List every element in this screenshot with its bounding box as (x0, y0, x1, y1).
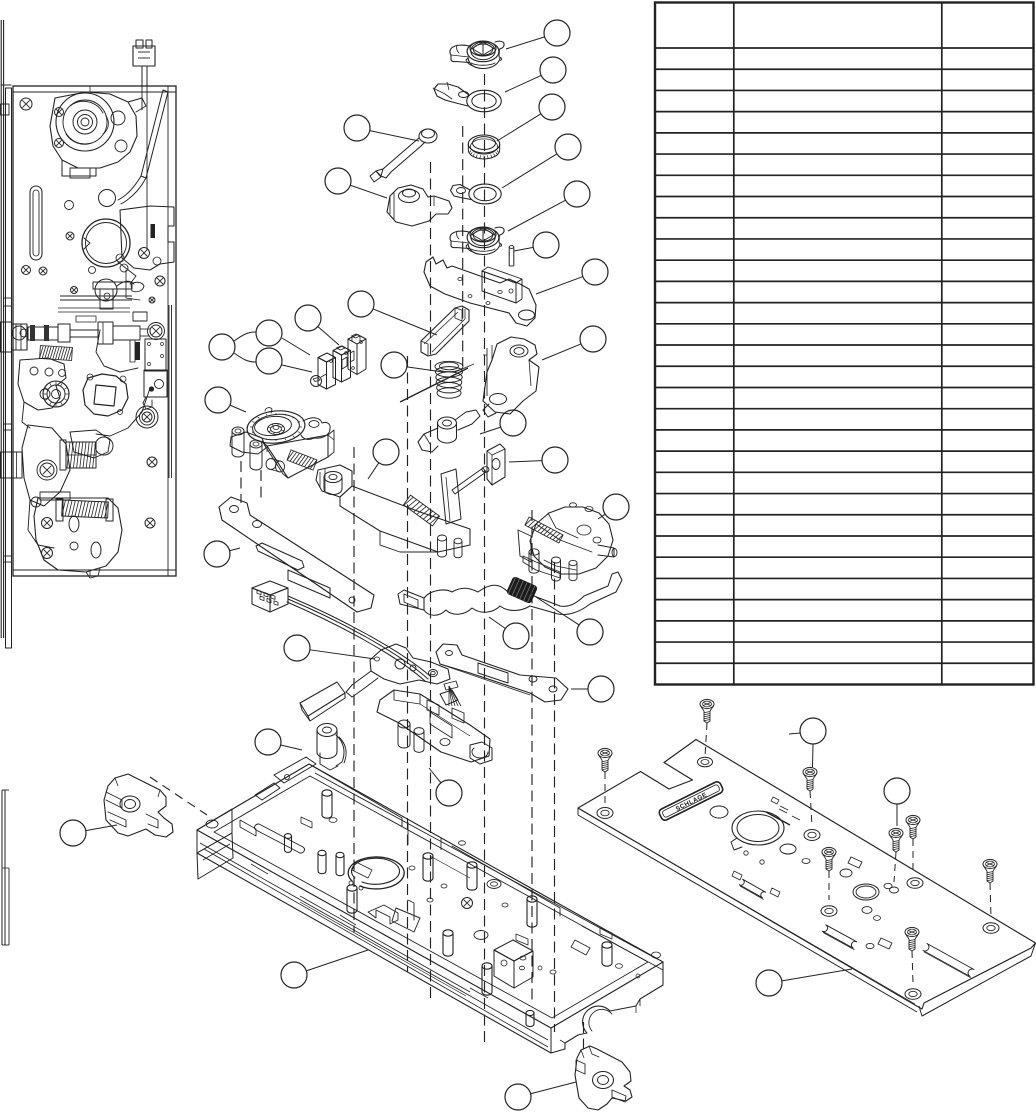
tray post 6 (467, 862, 477, 890)
callout balloon 18 (598, 494, 629, 520)
axis line x407 (407, 356, 409, 972)
mid horizontal detail lines (58, 308, 130, 322)
axis line x354 (353, 447, 355, 932)
drive rotor (518, 503, 617, 581)
parts table grid (655, 3, 1034, 685)
bottom latch module (34, 492, 122, 578)
callout balloon plate B (884, 778, 910, 826)
cam lock top (450, 41, 504, 68)
callout balloon 20 (284, 635, 375, 661)
handle rod (370, 129, 437, 182)
plate slots (739, 879, 974, 978)
callout balloon 1 (506, 20, 570, 49)
lift arm (418, 410, 480, 452)
mid plate details (60, 262, 136, 309)
guide plate small (487, 444, 505, 485)
callout balloon 17 (509, 447, 568, 473)
tray floor details (240, 817, 661, 996)
mounting screw 1 (700, 699, 714, 757)
callout balloon 2 (505, 57, 566, 92)
tray post 5 (423, 853, 433, 881)
deadbolt head (12, 324, 28, 350)
oval cam follower (136, 406, 158, 428)
actuator assembly (377, 681, 492, 764)
faceplate edge strips (1, 20, 12, 648)
tray post 11 (526, 1010, 534, 1026)
latch bolt head (12, 452, 23, 478)
callout balloon 4 (502, 134, 581, 188)
tray switch block (494, 940, 533, 988)
callout balloon 5 (508, 181, 590, 231)
horizontal coil spring lower (56, 499, 113, 521)
top connector (133, 40, 155, 66)
axis line x261 (260, 470, 262, 500)
lower faceplate strip (2, 790, 9, 945)
diagonal dash to tray (150, 777, 207, 815)
wire harness connector (252, 581, 288, 612)
plate holes (597, 757, 999, 999)
axis line x430 (430, 162, 432, 1002)
callout balloon 10 (348, 291, 437, 335)
slider channel bar (421, 306, 469, 356)
callout balloon 29 (756, 969, 852, 996)
needle pin (400, 364, 474, 402)
callout balloon 3 (497, 94, 565, 141)
callout balloon 6 (514, 232, 559, 258)
case bottom right screws (145, 457, 157, 528)
motor assembly (20, 92, 146, 178)
mounting screw 5 (889, 828, 903, 882)
hatch block spring (60, 440, 96, 470)
callout balloon 11 (295, 305, 339, 345)
axis line x583 bottom bracket (583, 1022, 585, 1050)
axis line x532 (531, 510, 533, 1000)
callout balloon 13 (381, 352, 443, 378)
callout balloon 14 (368, 439, 399, 479)
axis line x554 (554, 562, 556, 1032)
knurled wheel (43, 381, 69, 407)
mounting screw 8 (905, 927, 919, 983)
mounting screw 3 (803, 767, 817, 826)
callout balloon 7 (536, 259, 608, 294)
tray post 8 (482, 963, 492, 995)
mounting screw 7 (983, 859, 997, 917)
left linkage plates (18, 358, 66, 428)
plate hub hole (731, 811, 784, 850)
spindle shaft assembly (12, 322, 150, 344)
slot capsule (30, 186, 42, 260)
stop bracket bottom (575, 1046, 632, 1110)
callout balloon 24 (255, 729, 302, 755)
tab ring washer (451, 184, 502, 204)
motor drive unit (230, 408, 334, 478)
tray post 7 (443, 930, 453, 956)
lower left pivot plate (22, 425, 70, 548)
callout balloon 28 (505, 1082, 576, 1110)
mounting screw 2 (598, 748, 612, 808)
small circle detail (65, 190, 116, 210)
auxiliary lever diagonal (118, 90, 168, 204)
callout balloon 27 (281, 950, 368, 988)
axis line x241 (240, 461, 242, 503)
connector wires (142, 66, 147, 250)
bearing ring (468, 135, 499, 159)
right guide rail (120, 206, 174, 478)
callout balloon 21 (489, 617, 529, 649)
callout balloon 15 (480, 410, 526, 436)
tray post 3 (336, 852, 344, 875)
case screws (22, 254, 156, 303)
cam lock second (450, 227, 504, 254)
knurled spring black (506, 576, 537, 603)
callout balloon 12 (205, 387, 246, 413)
locking link wavy (398, 572, 622, 615)
release paddle (300, 682, 345, 721)
mounting bar lower (436, 644, 568, 702)
callout balloon 19 (204, 541, 240, 567)
tray post 9 (527, 896, 537, 927)
screw top-left area (66, 232, 74, 240)
plate cert text marks (766, 797, 800, 825)
harness wires (287, 596, 430, 681)
spring pin (509, 246, 514, 266)
cover plate outline (578, 740, 1036, 1017)
tray post 4 (347, 885, 357, 913)
horizontal spring left (39, 346, 72, 361)
stop works hub (387, 185, 452, 226)
bell crank bracket (483, 337, 539, 417)
tray near-wall inner lines (204, 849, 548, 1047)
callout balloon 16 (542, 326, 606, 360)
callout balloon 9 (325, 168, 387, 198)
spindle square hub (83, 374, 128, 416)
tray post 10 (602, 942, 612, 966)
callout balloon plate A (789, 718, 826, 767)
callout balloon 8 (344, 115, 419, 141)
mid lower arm (70, 330, 150, 458)
callout balloon 23 (571, 676, 614, 702)
carrier assembly (316, 465, 489, 558)
cylinder hub circle (82, 219, 130, 267)
lock case body (13, 86, 176, 576)
stop bracket left (104, 774, 173, 837)
switch module (311, 334, 367, 389)
mounting screw 6 (906, 815, 920, 872)
lock case tray outline (197, 764, 663, 1053)
pivot bracket arm (424, 257, 536, 326)
callout balloon cluster left (209, 320, 312, 374)
roller clip (317, 724, 346, 771)
axis line center x484 (484, 74, 486, 1042)
lever frame (346, 644, 450, 697)
schlage badge (658, 780, 724, 821)
coil spring (435, 361, 463, 398)
tray post 2 (318, 850, 326, 873)
slide bar left (219, 497, 374, 612)
callout balloon 26 (60, 820, 117, 846)
callout balloon 22 (536, 597, 603, 645)
retaining ring (348, 857, 404, 890)
tray post 1 (322, 790, 332, 818)
callout balloon 25 (429, 768, 462, 806)
tray rear wall upper edge (309, 764, 663, 970)
lever ring part (433, 82, 501, 112)
axis line x462 (462, 126, 464, 366)
small circle below hub (95, 279, 134, 301)
mounting screw 4 (822, 847, 836, 900)
tray back wall tab (255, 757, 316, 800)
tray post 12 (285, 834, 292, 853)
